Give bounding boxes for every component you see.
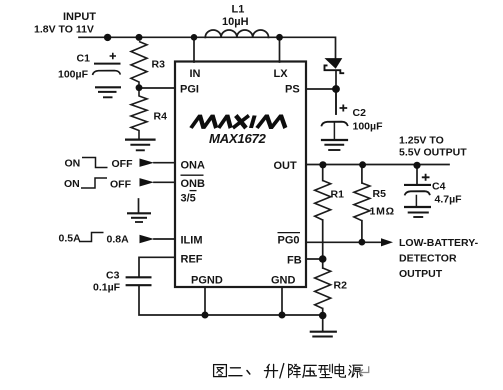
svg-text:R1: R1 [331, 189, 345, 201]
svg-text:LX: LX [274, 68, 289, 80]
svg-text:INPUT: INPUT [63, 11, 96, 23]
svg-text:C4: C4 [432, 181, 446, 193]
svg-text:PGND: PGND [191, 275, 223, 287]
svg-text:ONB: ONB [181, 178, 206, 190]
svg-text:PS: PS [285, 84, 300, 96]
svg-text:GND: GND [271, 275, 296, 287]
svg-text:LOW-BATTERY-: LOW-BATTERY- [399, 237, 479, 249]
svg-text:R5: R5 [373, 188, 387, 200]
svg-text:1MΩ: 1MΩ [370, 206, 395, 218]
svg-text:1.8V TO 11V: 1.8V TO 11V [34, 24, 94, 36]
svg-text:10µH: 10µH [222, 16, 249, 28]
svg-text:ILIM: ILIM [181, 235, 203, 247]
svg-text:0.5A: 0.5A [59, 233, 82, 245]
svg-text:L1: L1 [232, 4, 245, 16]
svg-text:3/5: 3/5 [181, 193, 196, 205]
svg-text:ONA: ONA [181, 160, 206, 172]
svg-text:100µF: 100µF [58, 69, 89, 81]
svg-text:4.7µF: 4.7µF [435, 194, 463, 206]
svg-text:C1: C1 [77, 53, 91, 65]
svg-text:PG0: PG0 [278, 235, 300, 247]
svg-text:ON: ON [64, 178, 80, 190]
svg-text:R3: R3 [152, 59, 166, 71]
svg-text:100µF: 100µF [353, 121, 384, 133]
svg-text:MAX1672: MAX1672 [209, 131, 267, 146]
svg-text:OUT: OUT [274, 160, 298, 172]
svg-text:1.25V TO: 1.25V TO [399, 135, 444, 147]
svg-text:5.5V OUTPUT: 5.5V OUTPUT [399, 147, 467, 159]
svg-text:OUTPUT: OUTPUT [399, 268, 443, 280]
svg-text:DETECTOR: DETECTOR [399, 253, 457, 265]
svg-text:C2: C2 [353, 107, 367, 119]
svg-text:OFF: OFF [112, 158, 134, 170]
svg-text:0.1µF: 0.1µF [93, 282, 121, 294]
svg-text:R4: R4 [154, 111, 168, 123]
svg-text:PGI: PGI [180, 84, 199, 96]
svg-text:0.8A: 0.8A [107, 234, 130, 246]
svg-text:IN: IN [190, 68, 201, 80]
svg-text:C3: C3 [106, 270, 120, 282]
svg-text:ON: ON [65, 158, 81, 170]
svg-text:FB: FB [287, 255, 302, 267]
svg-text:OFF: OFF [110, 179, 132, 191]
svg-text:R2: R2 [334, 280, 348, 292]
svg-text:REF: REF [181, 254, 203, 266]
